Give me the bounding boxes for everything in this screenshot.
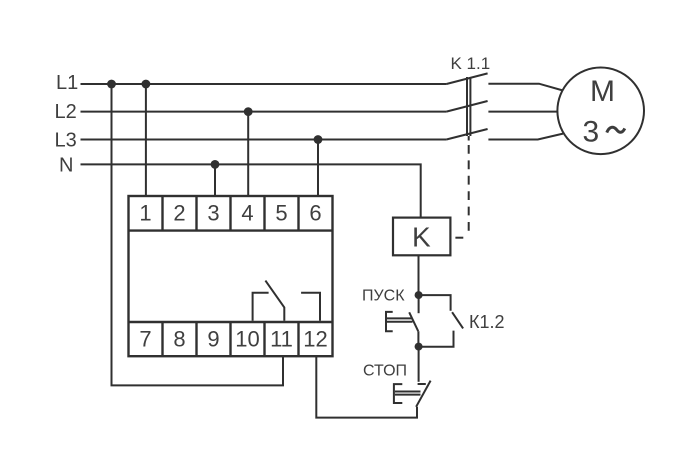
wire contact to motor phase L1 — [488, 84, 563, 91]
svg-text:3: 3 — [583, 116, 600, 149]
wire L1 to terminal 1 — [145, 84, 147, 196]
start button lower wire — [417, 331, 419, 346]
auxiliary contact K1.2 lower wire — [419, 331, 454, 347]
auxiliary contact K1.2 upper wire — [419, 295, 451, 311]
coil K box — [393, 218, 450, 256]
relay top row dividers — [163, 196, 299, 231]
svg-text:10: 10 — [235, 326, 259, 351]
wire L2 to terminal 4 — [247, 112, 249, 196]
stop button cap — [394, 384, 402, 403]
motor tilde symbol — [607, 127, 625, 132]
relay internal contact blade terminal 11 — [265, 281, 284, 321]
wire coil K to start junction — [418, 255, 420, 295]
relay bottom terminal row line — [129, 321, 333, 323]
relay top terminal row line — [129, 229, 333, 231]
svg-text:L2: L2 — [55, 101, 77, 123]
svg-text:L1: L1 — [56, 72, 78, 94]
svg-text:7: 7 — [139, 326, 151, 351]
start button upper wire — [418, 295, 420, 313]
svg-text:N: N — [59, 155, 73, 177]
svg-text:12: 12 — [303, 326, 327, 351]
svg-text:11: 11 — [270, 326, 293, 351]
wire L2 phase line — [81, 111, 447, 113]
svg-text:СТОП: СТОП — [363, 363, 407, 380]
start button blade — [409, 312, 418, 331]
svg-text:2: 2 — [173, 200, 185, 225]
svg-text:M: M — [590, 75, 615, 108]
relay bottom row dividers — [163, 322, 299, 356]
auxiliary contact K1.2 blade — [452, 312, 463, 328]
svg-text:3: 3 — [207, 200, 219, 225]
stop button push rod — [395, 392, 421, 395]
contact K1.1 linkage bar — [467, 77, 470, 141]
node start junction top — [415, 291, 423, 299]
wire contact to motor phase L2 — [488, 111, 558, 113]
junction L2 to terminal 4 — [244, 107, 253, 116]
wire terminal 12 to stop button — [316, 356, 417, 417]
wire N line to coil K — [81, 164, 421, 217]
svg-text:1: 1 — [139, 200, 151, 225]
motor M circle — [557, 68, 644, 155]
wire N to terminal 3 — [214, 164, 216, 196]
relay internal contact fixed side terminal 10 — [253, 293, 269, 321]
junction N to terminal 3 — [211, 160, 220, 169]
contact K1.1 blade phase L2 — [446, 101, 487, 112]
svg-text:9: 9 — [207, 326, 219, 351]
start button push rod — [386, 318, 413, 321]
wire L3 phase line — [81, 139, 447, 141]
svg-text:K: K — [412, 222, 431, 253]
svg-text:L3: L3 — [55, 129, 77, 151]
stop button blade — [416, 381, 431, 407]
wire L1 phase line — [81, 83, 447, 85]
mechanical link dash to coil — [455, 237, 463, 239]
relay internal contact fixed side terminal 12 — [301, 293, 320, 321]
svg-text:K 1.1: K 1.1 — [451, 54, 491, 73]
contact K1.1 blade phase L1 — [446, 73, 487, 84]
wire contact to motor phase L3 — [488, 134, 563, 140]
junction L1 to control circuit — [107, 80, 116, 89]
svg-text:6: 6 — [309, 200, 321, 225]
stop button seat — [418, 383, 426, 385]
svg-text:ПУСК: ПУСК — [362, 288, 405, 305]
svg-text:К1.2: К1.2 — [469, 312, 505, 332]
svg-text:8: 8 — [173, 326, 185, 351]
junction L1 to terminal 1 — [142, 80, 151, 89]
junction L3 to terminal 6 — [314, 135, 323, 144]
wire L3 to terminal 6 — [317, 140, 319, 197]
contact K1.1 blade phase L3 — [446, 129, 487, 140]
start button cap — [386, 312, 393, 331]
svg-text:5: 5 — [275, 200, 287, 225]
stop button upper wire — [418, 347, 420, 382]
wire L1 to terminal 11 — [112, 84, 284, 385]
mechanical link dashed line — [468, 145, 470, 233]
relay device outline — [129, 196, 333, 356]
svg-text:4: 4 — [241, 200, 253, 225]
node start junction bottom — [415, 343, 423, 351]
